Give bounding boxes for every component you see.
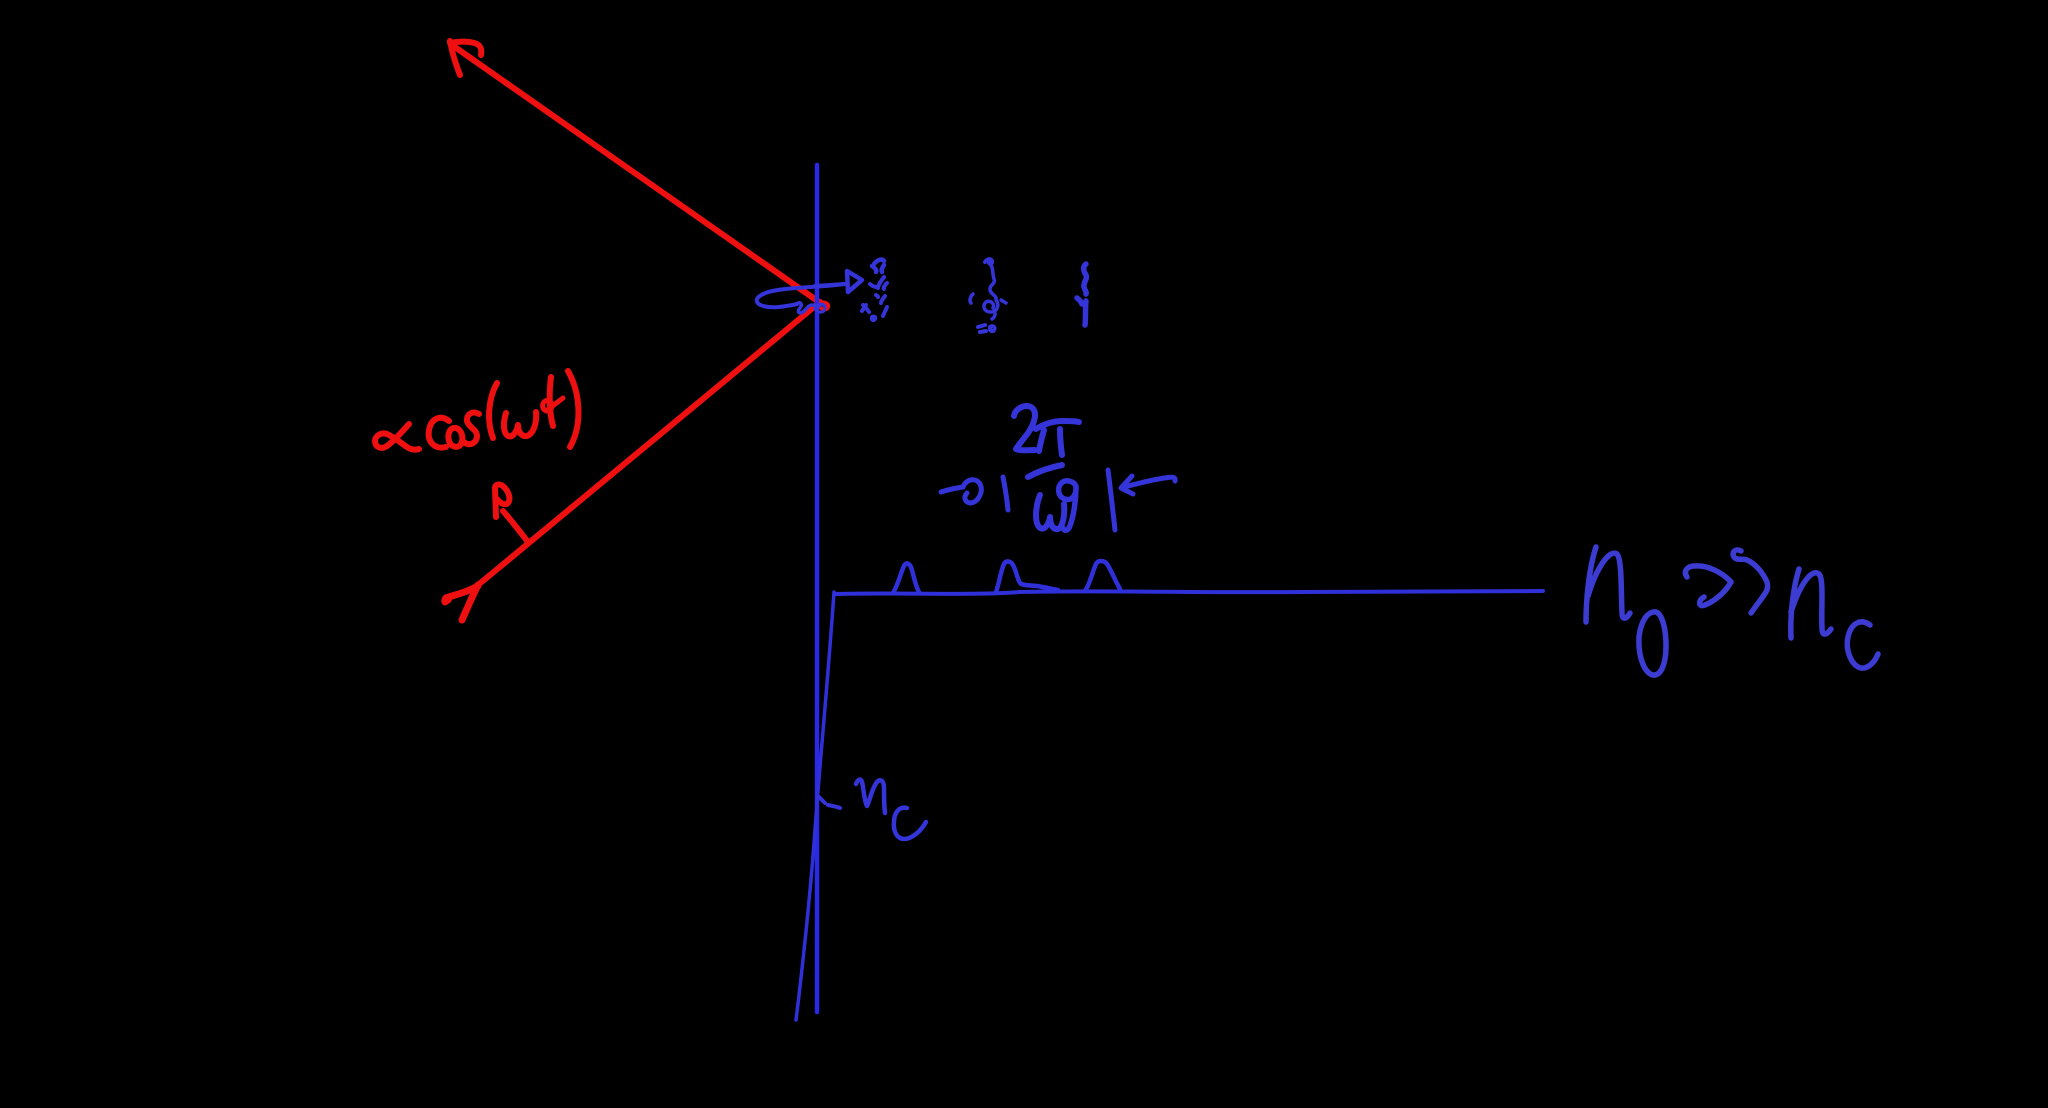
scribble column A	[872, 260, 884, 272]
measure arrow right	[1121, 476, 1175, 494]
label t cross loop	[543, 398, 563, 411]
nc label n	[856, 780, 885, 813]
oscillation loop arrow shaft	[815, 284, 845, 286]
incident ray arrow barb down	[462, 585, 478, 620]
scribble column B	[985, 259, 992, 264]
wavelength label pi	[1036, 421, 1079, 455]
label omega	[504, 412, 536, 436]
big label n0 : n	[1586, 547, 1630, 622]
plateau bump 1	[893, 563, 919, 593]
oscillation loop tiny circle	[816, 304, 825, 312]
oscillation loop	[757, 284, 844, 307]
plateau bump 2	[996, 561, 1058, 592]
E-field arrowhead	[495, 484, 509, 517]
much greater: first >	[1685, 566, 1731, 606]
scribble column C	[1084, 264, 1087, 294]
label s	[464, 413, 479, 445]
reflected ray	[452, 45, 819, 302]
incident ray arrow barb left	[445, 586, 478, 602]
E-field arrow stem	[503, 511, 528, 542]
oscillation loop wiggle	[797, 303, 816, 313]
density plateau line	[836, 591, 1543, 594]
wavelength label omega	[1036, 495, 1064, 529]
incident ray apex curl	[818, 303, 828, 310]
reflected ray arrowhead	[450, 41, 481, 75]
measure bar left	[1003, 477, 1008, 510]
much greater: second >	[1733, 550, 1768, 613]
wavelength label "2"	[1014, 406, 1035, 450]
wavelength label g	[1059, 481, 1076, 530]
nc label c	[894, 808, 926, 839]
big label nc : c	[1847, 622, 1878, 668]
label )	[568, 371, 578, 447]
label c	[429, 418, 449, 448]
label t stem	[550, 377, 553, 426]
measure arrow left curl head	[963, 480, 981, 503]
label (	[489, 383, 497, 438]
density ramp slanted line	[796, 592, 834, 1020]
label "propto cos(wt)" : propto	[375, 424, 419, 450]
incident ray	[478, 302, 820, 585]
big label n0 : 0	[1639, 612, 1666, 675]
big label nc : n	[1791, 569, 1831, 638]
measure arrow left	[941, 487, 963, 492]
nc tick	[819, 797, 840, 808]
incident ray arrow barb dot	[442, 594, 452, 604]
oscillation arrow hollow head	[847, 271, 862, 292]
plasma surface vertical line	[815, 165, 820, 1012]
fraction bar	[1028, 465, 1062, 477]
label o	[448, 428, 462, 447]
measure bar right	[1108, 470, 1115, 530]
plateau bump 3	[1085, 561, 1120, 591]
